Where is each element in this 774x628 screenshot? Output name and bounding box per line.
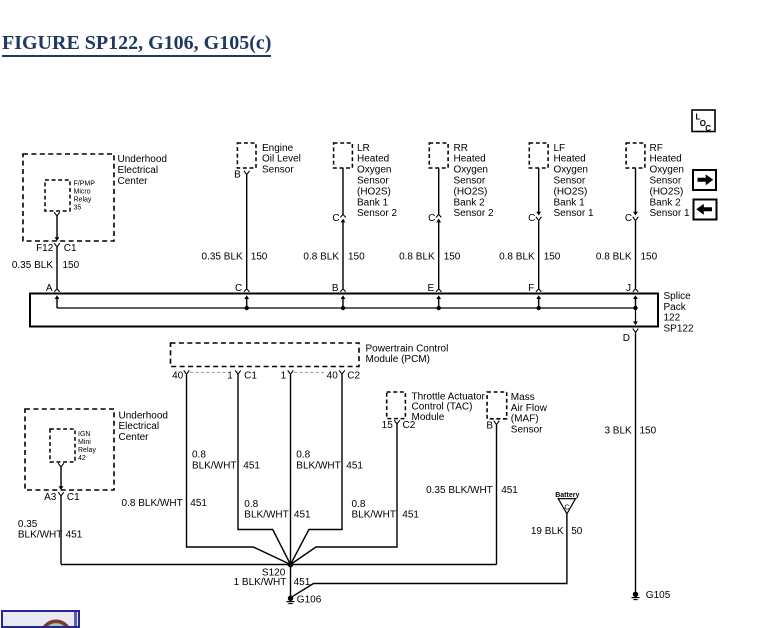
svg-text:Sensor 1: Sensor 1 bbox=[650, 208, 690, 219]
svg-text:Oxygen: Oxygen bbox=[554, 165, 588, 176]
svg-text:C1: C1 bbox=[244, 371, 257, 382]
svg-text:Sensor 1: Sensor 1 bbox=[554, 208, 594, 219]
svg-text:F: F bbox=[528, 283, 534, 294]
svg-text:Engine: Engine bbox=[262, 143, 294, 154]
svg-text:LF: LF bbox=[554, 143, 566, 154]
svg-text:Center: Center bbox=[118, 176, 149, 187]
svg-text:150: 150 bbox=[641, 251, 658, 262]
svg-text:E: E bbox=[428, 283, 435, 294]
svg-text:Underhood: Underhood bbox=[118, 154, 167, 165]
svg-text:150: 150 bbox=[348, 251, 365, 262]
svg-text:G106: G106 bbox=[297, 595, 322, 606]
svg-text:Bank 1: Bank 1 bbox=[554, 197, 586, 208]
svg-text:C: C bbox=[564, 505, 569, 512]
svg-text:Sensor: Sensor bbox=[262, 165, 294, 176]
svg-text:1 BLK/WHT: 1 BLK/WHT bbox=[234, 577, 287, 588]
svg-text:122: 122 bbox=[664, 313, 681, 324]
svg-text:0.8: 0.8 bbox=[296, 450, 310, 461]
svg-text:35: 35 bbox=[74, 205, 82, 212]
svg-text:Sensor: Sensor bbox=[357, 176, 389, 187]
svg-text:C: C bbox=[528, 213, 535, 224]
svg-text:150: 150 bbox=[544, 251, 561, 262]
svg-text:Electrical: Electrical bbox=[118, 165, 159, 176]
svg-text:G105: G105 bbox=[646, 590, 671, 601]
svg-text:Module (PCM): Module (PCM) bbox=[366, 354, 430, 365]
svg-text:BLK/WHT: BLK/WHT bbox=[18, 530, 62, 541]
svg-text:RF: RF bbox=[650, 143, 663, 154]
svg-text:BLK/WHT: BLK/WHT bbox=[352, 510, 396, 521]
svg-text:Oxygen: Oxygen bbox=[357, 165, 391, 176]
svg-text:C: C bbox=[428, 213, 435, 224]
svg-text:Mini: Mini bbox=[78, 439, 91, 446]
svg-text:150: 150 bbox=[63, 260, 80, 271]
svg-text:Oxygen: Oxygen bbox=[650, 165, 684, 176]
svg-text:Splice: Splice bbox=[664, 291, 692, 302]
svg-text:Micro: Micro bbox=[74, 189, 91, 196]
svg-text:1: 1 bbox=[227, 371, 233, 382]
svg-text:451: 451 bbox=[243, 460, 260, 471]
svg-text:B: B bbox=[486, 421, 493, 432]
svg-text:3 BLK: 3 BLK bbox=[604, 426, 632, 437]
svg-text:(MAF): (MAF) bbox=[511, 414, 539, 425]
svg-text:19 BLK: 19 BLK bbox=[531, 526, 564, 537]
svg-text:Relay: Relay bbox=[74, 197, 92, 204]
svg-text:Bank 2: Bank 2 bbox=[650, 197, 682, 208]
svg-text:40: 40 bbox=[327, 371, 339, 382]
svg-text:LR: LR bbox=[357, 143, 370, 154]
svg-text:Sensor: Sensor bbox=[650, 176, 682, 187]
svg-text:0.8 BLK/WHT: 0.8 BLK/WHT bbox=[122, 498, 183, 509]
svg-text:A3: A3 bbox=[44, 492, 57, 503]
svg-text:Bank 1: Bank 1 bbox=[357, 197, 389, 208]
svg-text:Bank 2: Bank 2 bbox=[454, 197, 486, 208]
svg-text:0.8 BLK: 0.8 BLK bbox=[303, 251, 339, 262]
svg-text:42: 42 bbox=[78, 455, 86, 462]
svg-text:Heated: Heated bbox=[650, 154, 682, 165]
svg-text:0.35: 0.35 bbox=[18, 519, 38, 530]
svg-text:0.8: 0.8 bbox=[244, 499, 258, 510]
svg-text:C: C bbox=[625, 213, 632, 224]
svg-text:BLK/WHT: BLK/WHT bbox=[192, 460, 236, 471]
svg-text:451: 451 bbox=[346, 460, 363, 471]
svg-text:0.8 BLK: 0.8 BLK bbox=[499, 251, 535, 262]
svg-text:451: 451 bbox=[294, 510, 311, 521]
svg-text:Sensor: Sensor bbox=[554, 176, 586, 187]
svg-text:Module: Module bbox=[412, 412, 445, 423]
svg-text:F/PMP: F/PMP bbox=[74, 181, 96, 188]
svg-text:RR: RR bbox=[454, 143, 468, 154]
svg-text:F12: F12 bbox=[36, 243, 54, 254]
svg-text:Sensor 2: Sensor 2 bbox=[454, 208, 494, 219]
svg-text:0.8: 0.8 bbox=[192, 450, 206, 461]
svg-text:C: C bbox=[235, 283, 242, 294]
svg-text:Underhood: Underhood bbox=[119, 410, 168, 421]
svg-text:Heated: Heated bbox=[357, 154, 389, 165]
svg-text:J: J bbox=[626, 283, 631, 294]
svg-text:Sensor: Sensor bbox=[454, 176, 486, 187]
svg-text:(HO2S): (HO2S) bbox=[554, 186, 588, 197]
svg-text:0.35 BLK: 0.35 BLK bbox=[202, 251, 243, 262]
svg-text:Center: Center bbox=[119, 432, 150, 443]
svg-text:0.35 BLK: 0.35 BLK bbox=[12, 260, 53, 271]
svg-text:1: 1 bbox=[281, 371, 287, 382]
svg-text:Powertrain Control: Powertrain Control bbox=[366, 343, 449, 354]
svg-text:150: 150 bbox=[640, 426, 657, 437]
svg-text:0.8: 0.8 bbox=[352, 499, 366, 510]
svg-text:0.35 BLK/WHT: 0.35 BLK/WHT bbox=[426, 485, 493, 496]
svg-text:Air Flow: Air Flow bbox=[511, 403, 548, 414]
svg-text:Relay: Relay bbox=[78, 447, 96, 454]
svg-text:A: A bbox=[46, 283, 53, 294]
svg-text:Pack: Pack bbox=[664, 302, 687, 313]
svg-text:C1: C1 bbox=[64, 243, 77, 254]
svg-text:BLK/WHT: BLK/WHT bbox=[296, 460, 340, 471]
svg-text:Oxygen: Oxygen bbox=[454, 165, 488, 176]
svg-text:Electrical: Electrical bbox=[119, 421, 160, 432]
svg-text:C: C bbox=[332, 213, 339, 224]
svg-text:Sensor 2: Sensor 2 bbox=[357, 208, 397, 219]
svg-text:BLK/WHT: BLK/WHT bbox=[244, 510, 288, 521]
svg-text:C2: C2 bbox=[403, 420, 416, 431]
svg-text:451: 451 bbox=[402, 510, 419, 521]
svg-text:(HO2S): (HO2S) bbox=[454, 186, 488, 197]
svg-text:Heated: Heated bbox=[554, 154, 586, 165]
svg-text:15: 15 bbox=[382, 420, 394, 431]
svg-text:D: D bbox=[623, 333, 630, 344]
svg-text:IGN: IGN bbox=[78, 431, 90, 438]
svg-text:Sensor: Sensor bbox=[511, 425, 543, 436]
svg-text:C1: C1 bbox=[67, 492, 80, 503]
svg-text:C2: C2 bbox=[347, 371, 360, 382]
svg-text:50: 50 bbox=[571, 526, 583, 537]
svg-text:Heated: Heated bbox=[454, 154, 486, 165]
svg-text:Battery: Battery bbox=[555, 492, 579, 499]
svg-text:150: 150 bbox=[444, 251, 461, 262]
svg-text:451: 451 bbox=[294, 577, 311, 588]
svg-text:B: B bbox=[332, 283, 339, 294]
svg-text:(HO2S): (HO2S) bbox=[650, 186, 684, 197]
svg-text:451: 451 bbox=[190, 498, 207, 509]
svg-text:C: C bbox=[705, 124, 711, 133]
svg-text:0.8 BLK: 0.8 BLK bbox=[596, 251, 632, 262]
svg-text:B: B bbox=[234, 170, 241, 181]
svg-text:40: 40 bbox=[172, 371, 184, 382]
svg-text:0.8 BLK: 0.8 BLK bbox=[399, 251, 435, 262]
svg-text:451: 451 bbox=[66, 530, 83, 541]
svg-text:150: 150 bbox=[251, 251, 268, 262]
svg-text:SP122: SP122 bbox=[664, 324, 694, 335]
svg-text:Mass: Mass bbox=[511, 392, 535, 403]
svg-text:Oil Level: Oil Level bbox=[262, 154, 301, 165]
svg-text:(HO2S): (HO2S) bbox=[357, 186, 391, 197]
svg-text:451: 451 bbox=[501, 485, 518, 496]
